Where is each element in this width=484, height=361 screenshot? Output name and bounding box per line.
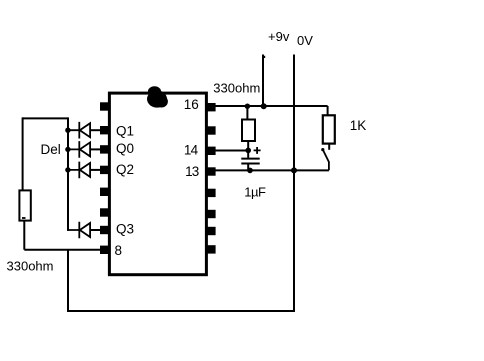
svg-text:330ohm: 330ohm xyxy=(7,258,54,273)
pin 13 (right) xyxy=(207,167,215,175)
pin 7 (left, Q3) xyxy=(100,226,108,234)
node junction pin14 / cap + xyxy=(245,148,251,154)
svg-text:0V: 0V xyxy=(297,33,313,48)
svg-text:330ohm: 330ohm xyxy=(213,80,260,95)
pin 3 (left, Q0) xyxy=(100,145,108,153)
node junction bus Q2 xyxy=(65,167,70,172)
resistor R3 1K bottom lead xyxy=(328,144,330,150)
pin 9 (right) xyxy=(207,245,215,253)
diode D1 (Q1 row) xyxy=(68,122,100,139)
pin 4 (left, Q2) xyxy=(100,166,108,174)
pin 11 (right) xyxy=(207,210,215,218)
diode D2 (Q0 row) xyxy=(68,141,100,158)
pin 6 (left) xyxy=(100,208,108,216)
resistor R1 inner tick xyxy=(22,217,26,219)
svg-text:Q0: Q0 xyxy=(116,141,134,156)
IC U1 notch xyxy=(147,86,168,107)
wire bus drop to bottom rail xyxy=(67,250,69,311)
capacitor C1 bottom lead xyxy=(247,165,249,171)
switch S1 pivot tip xyxy=(321,148,324,151)
tick on +9v line top xyxy=(264,56,266,58)
pin 8 (left) xyxy=(100,246,108,254)
wire diode bus vertical xyxy=(67,117,69,230)
wire pin13 row to 0V and switch xyxy=(216,169,329,171)
switch S1 lever xyxy=(323,150,329,171)
node junction 330ohm top xyxy=(245,104,250,109)
resistor R2 bottom lead to capacitor xyxy=(247,141,249,158)
capacitor C1 top plate xyxy=(241,158,259,160)
pin 1 (left) xyxy=(100,102,108,110)
resistor R1 330ohm body xyxy=(19,190,30,220)
svg-text:14: 14 xyxy=(184,143,199,158)
IC U1 body xyxy=(109,93,206,275)
capacitor C1 plus sign xyxy=(254,147,261,154)
node junction +9v rail xyxy=(261,103,267,109)
diode D3 (Q2 row) xyxy=(68,162,100,179)
pin 10 (right) xyxy=(207,227,215,235)
node junction cap bottom / pin13 wire xyxy=(247,168,253,174)
wire left vertical to R1 xyxy=(22,117,24,190)
capacitor C1 bottom plate xyxy=(241,163,259,165)
svg-text:Q2: Q2 xyxy=(116,162,134,177)
wire pin14 to capacitor xyxy=(216,150,249,152)
node junction 0V / pin13 row xyxy=(291,167,297,173)
pin 2 (left, Q1) xyxy=(100,126,108,134)
resistor R3 1K top lead xyxy=(327,106,329,115)
diode D4 (Q3 row) xyxy=(68,222,100,239)
resistor R2 330ohm top lead xyxy=(246,106,248,120)
wire R1 to pin 8 xyxy=(24,249,100,251)
node junction bus Q0 xyxy=(65,147,70,152)
wire +9v supply line xyxy=(262,55,264,107)
wire pin16 to +9v and 1K xyxy=(216,105,328,107)
pin 16 (right) xyxy=(207,103,215,111)
pin 12 (right) xyxy=(207,189,215,197)
svg-text:13: 13 xyxy=(185,164,199,179)
resistor R1 bottom lead xyxy=(23,221,25,250)
wire top-left horizontal xyxy=(23,117,68,119)
resistor R3 1K body xyxy=(323,115,335,143)
svg-text:Del: Del xyxy=(41,142,61,157)
node junction bus Q1 xyxy=(65,128,70,133)
pin 15 (right) xyxy=(207,126,215,134)
svg-text:Q3: Q3 xyxy=(116,221,134,236)
pin 14 (right) xyxy=(207,147,215,155)
pin 5 (left) xyxy=(100,188,108,196)
wire bottom rail xyxy=(67,310,295,312)
svg-text:+9v: +9v xyxy=(268,29,290,44)
svg-text:1µF: 1µF xyxy=(244,185,266,200)
svg-text:1K: 1K xyxy=(350,118,367,133)
wire 0V supply line xyxy=(293,55,295,312)
svg-text:8: 8 xyxy=(115,243,123,258)
resistor R2 330ohm body xyxy=(242,120,255,142)
svg-text:Q1: Q1 xyxy=(116,123,134,138)
svg-text:16: 16 xyxy=(184,97,199,112)
